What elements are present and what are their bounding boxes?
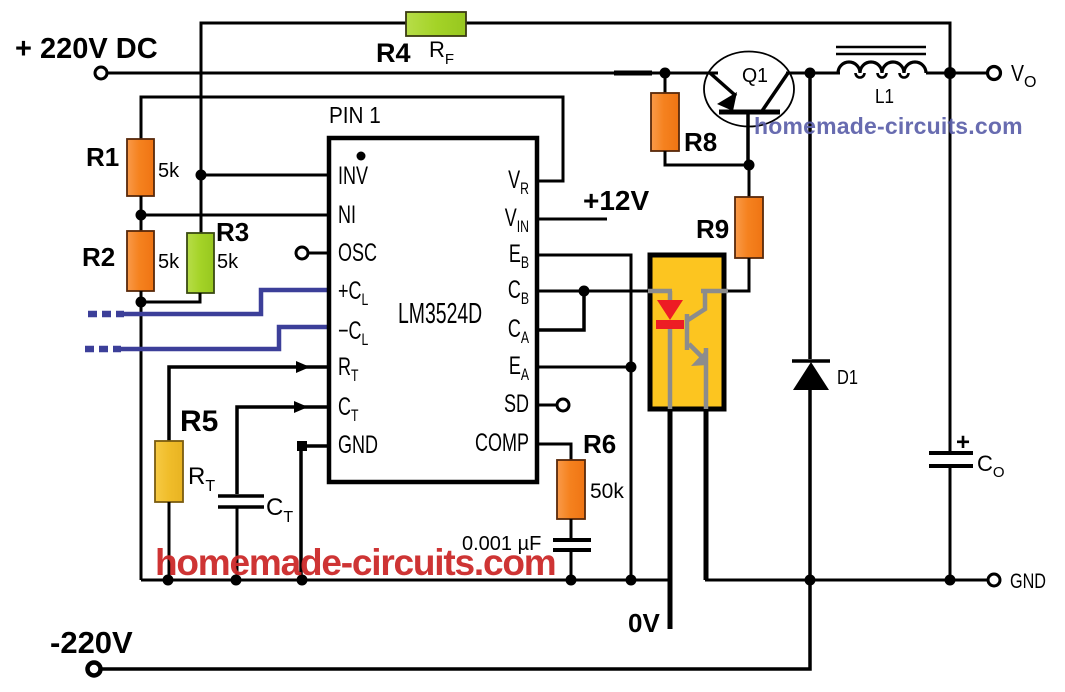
svg-text:R8: R8 bbox=[684, 127, 717, 157]
svg-text:NI: NI bbox=[338, 200, 356, 229]
resistor R9 bbox=[696, 165, 763, 291]
wire RT net bbox=[169, 367, 329, 441]
resistor R5 bbox=[155, 405, 218, 580]
svg-text:PIN 1: PIN 1 bbox=[329, 102, 381, 128]
svg-text:homemade-circuits.com: homemade-circuits.com bbox=[754, 113, 1023, 139]
svg-text:O: O bbox=[1024, 74, 1036, 91]
wire bottom rail left segment bbox=[141, 579, 671, 582]
resistor R1 bbox=[86, 139, 180, 196]
node Q1 base junction bbox=[744, 160, 755, 171]
svg-text:Q1: Q1 bbox=[742, 65, 768, 87]
wire opto leads bbox=[668, 409, 673, 629]
node D1 top junction bbox=[805, 68, 816, 79]
resistor R3 bbox=[187, 217, 249, 293]
node INV junction bbox=[196, 170, 207, 181]
svg-text:5k: 5k bbox=[158, 251, 180, 273]
wire R2 R3 bottom junction bbox=[141, 291, 200, 580]
wire EA bbox=[537, 366, 631, 369]
svg-text:GND: GND bbox=[338, 430, 378, 459]
opto internals gray bbox=[648, 291, 728, 409]
wire R1 bottom to R2 bbox=[140, 196, 143, 231]
wire -220V rail bbox=[102, 580, 810, 669]
wire COMP net bbox=[537, 444, 571, 460]
wire +CL blue bbox=[88, 290, 329, 314]
resistor R6 bbox=[557, 429, 624, 538]
svg-text:R9: R9 bbox=[696, 214, 729, 244]
svg-text:5k: 5k bbox=[217, 251, 239, 273]
resistor R8 bbox=[651, 73, 749, 165]
wire D1 vertical bbox=[808, 73, 812, 580]
capacitor Co bbox=[929, 73, 1005, 580]
svg-text:SD: SD bbox=[504, 389, 529, 418]
node R8 top junction bbox=[660, 68, 671, 79]
svg-text:+ 220V DC: + 220V DC bbox=[15, 33, 158, 65]
node R2 bottom junction bbox=[136, 297, 147, 308]
wire +220V rail bbox=[107, 72, 718, 75]
transistor Q1 bbox=[704, 52, 794, 166]
inductor L1 bbox=[836, 47, 926, 108]
svg-text:R5: R5 bbox=[180, 405, 218, 438]
terminal SD bbox=[537, 399, 569, 411]
wire Q1 collector to L1 bbox=[786, 72, 840, 75]
terminal -220V bbox=[50, 625, 133, 676]
wire L1 to Vo bbox=[926, 72, 988, 75]
wire GND pin net bbox=[301, 446, 329, 580]
svg-text:L1: L1 bbox=[875, 86, 894, 108]
svg-text:INV: INV bbox=[338, 161, 368, 190]
svg-text:-220V: -220V bbox=[50, 625, 133, 660]
opto emitter arrowhead bbox=[691, 351, 708, 366]
terminal GND bbox=[950, 570, 1046, 593]
terminal OSC bbox=[296, 247, 329, 259]
IC U1 LM3524D bbox=[329, 102, 537, 482]
terminal Vo bbox=[988, 60, 1037, 91]
svg-text:0V: 0V bbox=[628, 608, 660, 638]
svg-text:OSC: OSC bbox=[338, 238, 377, 267]
node EA junction bbox=[626, 362, 637, 373]
svg-text:LM3524D: LM3524D bbox=[398, 298, 482, 330]
wire INV bbox=[201, 174, 329, 177]
svg-text:GND: GND bbox=[1010, 570, 1046, 593]
wire -CL blue bbox=[85, 327, 329, 349]
svg-text:R3: R3 bbox=[216, 217, 249, 247]
diode D1 bbox=[792, 361, 858, 390]
svg-text:5k: 5k bbox=[158, 160, 180, 182]
svg-text:R1: R1 bbox=[86, 142, 119, 172]
node R1-R2 junction bbox=[136, 210, 147, 221]
wire thick overlap segment bbox=[614, 71, 652, 76]
svg-text:50k: 50k bbox=[590, 480, 624, 503]
resistor R2 bbox=[82, 231, 180, 291]
svg-text:V: V bbox=[1011, 60, 1025, 86]
resistor R4 bbox=[376, 12, 466, 68]
svg-text:COMP: COMP bbox=[475, 428, 529, 457]
capacitor CT bbox=[218, 494, 293, 580]
node output junction bbox=[944, 67, 956, 79]
svg-text:+12V: +12V bbox=[583, 185, 649, 216]
wire VIN, +12V label bbox=[537, 185, 649, 219]
svg-text:R6: R6 bbox=[583, 429, 616, 459]
node CB junction bbox=[579, 286, 590, 297]
svg-text:R2: R2 bbox=[82, 242, 115, 272]
wire bottom rail right segment bbox=[705, 579, 950, 582]
terminal +220V DC bbox=[15, 33, 158, 79]
wire NI bbox=[141, 214, 329, 217]
wire CB net bbox=[537, 290, 649, 293]
wire VR to R1 top bbox=[141, 97, 563, 181]
svg-text:R4: R4 bbox=[376, 38, 411, 68]
wire CB-CA link bbox=[537, 291, 584, 330]
capacitor 0.001uF bbox=[462, 533, 591, 580]
svg-text:+: + bbox=[956, 429, 970, 456]
wire EB-EA vertical bbox=[537, 255, 631, 580]
svg-text:homemade-circuits.com: homemade-circuits.com bbox=[155, 542, 555, 583]
node rail junctions bbox=[163, 575, 956, 586]
wire CT net bbox=[237, 407, 329, 494]
LED inside opto bbox=[657, 300, 683, 320]
wire top feedback rail bbox=[201, 23, 950, 233]
svg-text:D1: D1 bbox=[837, 367, 858, 389]
optocoupler U2 bbox=[648, 255, 728, 629]
